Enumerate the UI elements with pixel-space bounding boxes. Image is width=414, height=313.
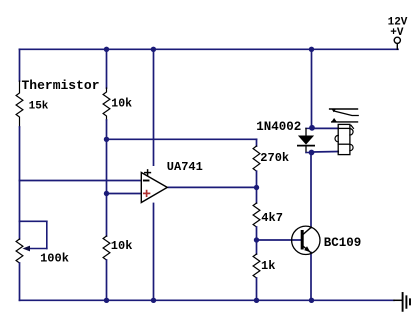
ground symbol bar 2 xyxy=(405,296,407,308)
wire top supply rail xyxy=(20,48,399,50)
wire op-amp non-inverting input xyxy=(107,193,142,195)
wire pot wiper loop vertical xyxy=(46,221,48,248)
op-amp U1 UA741 triangle xyxy=(141,173,167,203)
relay RLA1 coil bump right lower xyxy=(350,144,353,150)
svg-text:100k: 100k xyxy=(40,252,69,266)
relay contact arrowhead lower xyxy=(332,118,337,122)
op-amp non-inverting input plus sign (red) xyxy=(144,191,150,197)
diode D1 1N4002 cathode bar xyxy=(298,145,314,147)
wire 270k top lead xyxy=(256,139,258,146)
svg-text:1N4002: 1N4002 xyxy=(256,120,301,134)
relay RLA1 coil bump left middle xyxy=(335,135,338,141)
diode D1 1N4002 top jog wire xyxy=(306,127,312,129)
node junction 4k7 / 1k / base xyxy=(254,237,259,242)
wire left rail upper segment (thermistor branch) xyxy=(19,49,21,81)
wire relay coil top connection xyxy=(312,127,339,129)
diode D1 1N4002 bottom jog wire xyxy=(306,152,312,154)
wire left rail middle segment xyxy=(19,127,21,239)
node junction feedback branch xyxy=(104,137,109,142)
relay mechanical link dash xyxy=(351,125,354,128)
resistor R5 1k body xyxy=(253,254,260,278)
wire 1k top lead xyxy=(256,240,258,254)
wire collector vertical xyxy=(310,153,312,228)
wire 4k7 bottom lead xyxy=(256,227,258,240)
diode D1 1N4002 triangle xyxy=(298,136,314,145)
node junction bottom rail / third rail xyxy=(151,298,156,303)
node junction op-amp output / 270k / 4k7 xyxy=(254,185,259,190)
op-amp U1 UA741 clipart white backing xyxy=(141,166,168,203)
transistor Q1 BC109 circle xyxy=(292,226,320,254)
wire 4k7 branch upper xyxy=(256,188,258,204)
potentiometer VR1 100k body xyxy=(16,239,23,263)
transistor Q1 collector diagonal xyxy=(304,227,312,234)
wire bottom ground rail xyxy=(20,299,395,301)
wire supply terminal stub xyxy=(396,44,398,50)
wire right rail from supply to diode xyxy=(311,49,313,128)
node junction top rail / third rail xyxy=(151,47,156,52)
ground symbol stub xyxy=(394,299,402,301)
svg-text:1k: 1k xyxy=(261,259,275,273)
relay RLA1 coil rectangle xyxy=(338,124,350,154)
wire emitter vertical xyxy=(310,253,312,301)
wire second rail middle segment xyxy=(106,120,108,236)
transistor Q1 emitter arrowhead xyxy=(304,246,310,252)
supply terminal circle xyxy=(394,37,400,43)
svg-text:BC109: BC109 xyxy=(324,236,362,250)
wire 270k bottom lead to output node xyxy=(256,171,258,187)
node junction diode anode / relay top xyxy=(309,125,315,131)
node junction bottom rail / R2 xyxy=(104,298,109,303)
node junction top rail / R1 xyxy=(104,47,109,52)
relay RLA1 coil divider lower xyxy=(338,143,350,145)
potentiometer wiper arrowhead xyxy=(23,246,31,252)
relay RLA1 coil bump right upper xyxy=(350,129,353,135)
wire second rail lower segment xyxy=(106,260,108,300)
wire 1k bottom lead xyxy=(256,278,258,300)
svg-text:UA741: UA741 xyxy=(167,160,203,174)
ground symbol bar 3 xyxy=(409,299,411,304)
transistor Q1 base bar xyxy=(301,230,304,250)
wire op-amp output xyxy=(167,186,257,188)
potentiometer wiper arrow line xyxy=(29,248,47,250)
diode D1 1N4002 cathode lead xyxy=(305,146,307,153)
transistor Q1 emitter diagonal xyxy=(304,247,312,253)
ground symbol bar 1 xyxy=(402,293,404,311)
relay contact arrowhead upper xyxy=(331,109,336,113)
relay contact fixed line lower xyxy=(332,121,358,123)
svg-text:15k: 15k xyxy=(29,101,49,113)
node junction bottom rail / 1k xyxy=(254,298,259,303)
resistor R1 10k body xyxy=(103,88,110,120)
op-amp power plus sign xyxy=(145,170,151,175)
wire second rail upper segment xyxy=(106,49,108,88)
wire op-amp inverting input xyxy=(20,180,142,182)
svg-text:4k7: 4k7 xyxy=(261,211,283,225)
wire feedback branch horizontal to 270k xyxy=(107,138,257,140)
svg-text:270k: 270k xyxy=(260,151,289,165)
resistor R2 10k body xyxy=(103,236,110,260)
svg-text:10k: 10k xyxy=(111,97,132,110)
node junction diode cathode / relay bottom / collector xyxy=(309,150,315,156)
svg-text:10k: 10k xyxy=(111,239,133,253)
op-amp inverting input minus sign xyxy=(144,180,149,182)
wire relay coil bottom connection xyxy=(312,151,339,154)
node junction top rail / relay branch xyxy=(309,47,314,52)
thermistor TH1 15k body xyxy=(16,81,23,127)
relay contact fixed line upper xyxy=(330,108,358,110)
svg-text:Thermistor: Thermistor xyxy=(22,78,100,93)
wire pot wiper loop horizontal xyxy=(20,220,47,222)
relay armature xyxy=(334,111,358,116)
relay RLA1 coil divider upper xyxy=(338,127,350,129)
wire third rail full xyxy=(153,49,155,300)
diode D1 1N4002 anode lead xyxy=(305,128,307,135)
node junction non-inverting input xyxy=(104,191,109,196)
resistor R3 270k body xyxy=(253,146,260,171)
node junction bottom rail / emitter xyxy=(309,298,314,303)
wire left rail lower segment xyxy=(19,263,21,300)
wire base branch horizontal xyxy=(257,239,302,241)
svg-text:+V: +V xyxy=(390,27,404,39)
resistor R4 4k7 body xyxy=(253,203,260,227)
